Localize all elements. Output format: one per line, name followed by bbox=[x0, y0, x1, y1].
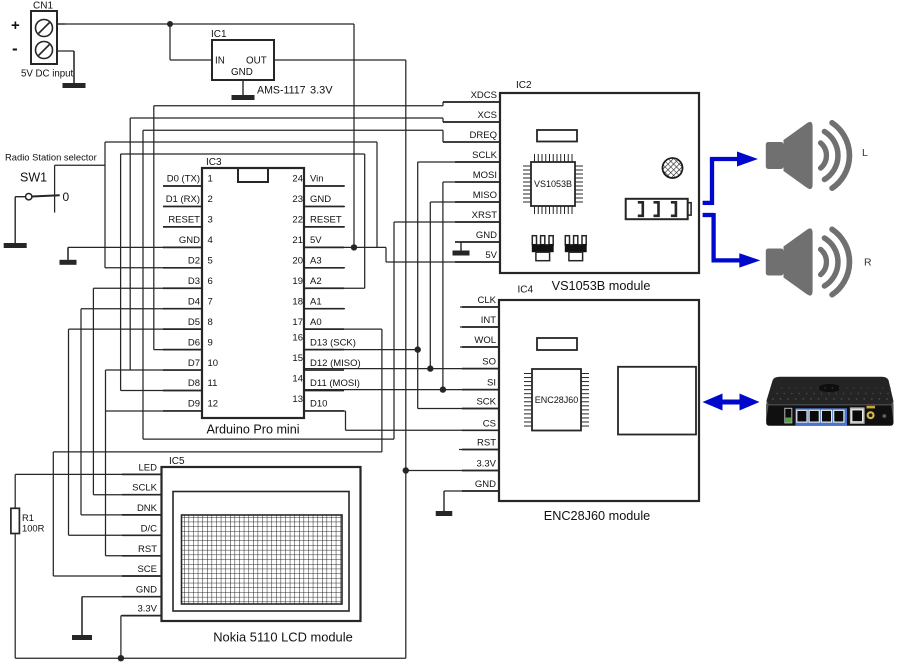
wire bus B5 D8 to A2 bbox=[121, 153, 365, 155]
svg-text:3.3V: 3.3V bbox=[137, 604, 157, 615]
svg-text:4: 4 bbox=[208, 235, 213, 246]
wire D3 to LCD SCLK bbox=[93, 287, 202, 289]
module IC4 ENC28J60 bbox=[474, 285, 699, 502]
wire D6 row bbox=[154, 349, 202, 351]
svg-text:SW1: SW1 bbox=[20, 171, 47, 185]
svg-text:D13 (SCK): D13 (SCK) bbox=[310, 337, 356, 348]
wire Arduino 5V pin to jog bbox=[304, 246, 386, 248]
wire LCD LED row to R1 bbox=[15, 473, 161, 475]
svg-text:11: 11 bbox=[208, 378, 218, 389]
ground VS1053B GND bbox=[453, 242, 470, 256]
node junction D13-SCLK-SCK bbox=[415, 346, 421, 352]
svg-text:5: 5 bbox=[208, 256, 213, 267]
svg-text:D11 (MOSI): D11 (MOSI) bbox=[310, 378, 360, 389]
wire 3.3V bottom rail bbox=[15, 657, 406, 659]
connector CN1 5V DC input bbox=[11, 1, 74, 80]
svg-text:D5: D5 bbox=[188, 317, 200, 328]
wire D8 row bbox=[121, 390, 202, 392]
wire blue audio R tap bbox=[703, 213, 714, 217]
crystal rect inside ENC28J60 module bbox=[537, 338, 577, 350]
wire Vin stub bbox=[304, 185, 345, 187]
svg-text:14: 14 bbox=[292, 374, 303, 385]
svg-text:15: 15 bbox=[292, 353, 303, 364]
wire GND4 to ground bbox=[68, 246, 202, 248]
svg-text:R1: R1 bbox=[22, 512, 34, 523]
svg-text:D7: D7 bbox=[188, 358, 200, 369]
wire RESET stub bbox=[163, 226, 202, 228]
svg-text:D1 (RX): D1 (RX) bbox=[166, 194, 200, 205]
arrow to speaker R bbox=[712, 253, 761, 267]
wire bus B3 DREQ line bbox=[143, 129, 443, 131]
svg-text:100R: 100R bbox=[22, 523, 45, 534]
svg-text:L: L bbox=[862, 147, 868, 159]
header connector J1 in VS module bbox=[532, 236, 554, 261]
svg-text:D2: D2 bbox=[188, 256, 200, 267]
svg-text:23: 23 bbox=[292, 194, 303, 205]
wire bus B2 XCS to D7 bbox=[130, 117, 443, 119]
svg-text:GND: GND bbox=[136, 585, 157, 596]
node junction LCD 3.3V on rail bbox=[118, 655, 124, 661]
svg-text:8: 8 bbox=[208, 317, 213, 328]
svg-text:-: - bbox=[12, 39, 18, 58]
svg-text:MISO: MISO bbox=[473, 190, 497, 201]
svg-text:17: 17 bbox=[292, 317, 303, 328]
wire D2 row bbox=[105, 267, 202, 269]
svg-text:Nokia 5110 LCD module: Nokia 5110 LCD module bbox=[213, 630, 353, 645]
svg-text:2: 2 bbox=[208, 194, 213, 205]
node junction MOSI bbox=[440, 386, 446, 392]
wire RESET22 stub bbox=[304, 226, 345, 228]
module IC2 VS1053B bbox=[470, 80, 699, 273]
wire bus B4 from D2 and SW1 to 5V tie bbox=[105, 141, 377, 143]
svg-text:7: 7 bbox=[208, 296, 213, 307]
svg-text:SI: SI bbox=[487, 378, 496, 389]
ground Arduino GND4 bbox=[60, 247, 77, 264]
svg-text:SCLK: SCLK bbox=[472, 150, 497, 161]
wire XCS stub bbox=[443, 121, 500, 123]
wire ENC INT stub bbox=[460, 326, 500, 328]
RJ45 jack rect bbox=[618, 367, 696, 435]
svg-text:CN1: CN1 bbox=[33, 1, 53, 12]
wire vertical tie B4 to 5V line bbox=[376, 142, 378, 247]
chip VS1053B QFP bbox=[523, 154, 583, 214]
svg-text:IN: IN bbox=[215, 56, 225, 67]
svg-text:IC4: IC4 bbox=[518, 285, 534, 296]
svg-text:D9: D9 bbox=[188, 399, 200, 410]
svg-text:D10: D10 bbox=[310, 399, 327, 410]
svg-text:D12 (MISO): D12 (MISO) bbox=[310, 358, 361, 369]
wire LCD 3.3V to bottom rail bbox=[121, 615, 162, 617]
wire LCD GND to ground bbox=[82, 596, 162, 598]
wire VS GND to ground bbox=[461, 241, 500, 243]
svg-text:A2: A2 bbox=[310, 276, 322, 287]
svg-text:3.3V: 3.3V bbox=[310, 85, 333, 97]
wire R1 top bbox=[14, 474, 16, 508]
svg-text:SCLK: SCLK bbox=[132, 483, 157, 494]
wire ENC 3.3V stub bbox=[406, 470, 500, 472]
svg-text:Radio Station selector: Radio Station selector bbox=[5, 152, 97, 163]
svg-text:Arduino Pro mini: Arduino Pro mini bbox=[206, 423, 299, 437]
arrow to speaker L bbox=[710, 152, 758, 167]
svg-text:SCK: SCK bbox=[476, 397, 496, 408]
wire A2 stub extension bbox=[304, 287, 365, 289]
wire VS SCLK vertical to D13 and ENC SCK bbox=[417, 162, 419, 409]
svg-text:19: 19 bbox=[292, 276, 303, 287]
svg-text:CS: CS bbox=[483, 418, 496, 429]
LCD inner frame bbox=[173, 492, 349, 612]
wire DREQ stub bbox=[443, 141, 500, 143]
wire CN1 minus to ground bbox=[57, 50, 74, 52]
node junction MISO bbox=[427, 365, 433, 371]
node junction on 5V top wire feeding IC1 IN bbox=[167, 21, 173, 27]
regulator IC1 AMS-1117 3.3V bbox=[211, 29, 333, 97]
wire ENC RST stub bbox=[459, 449, 500, 451]
speaker L bbox=[766, 122, 850, 189]
wire VS MISO vertical to D12/SO line bbox=[429, 202, 431, 369]
svg-text:22: 22 bbox=[292, 215, 303, 226]
wire 5V vertical x=354 down to Arduino 5V pin bbox=[353, 24, 355, 247]
IC3 Arduino Pro mini DIP-24 bbox=[166, 157, 361, 437]
svg-text:A0: A0 bbox=[310, 317, 322, 328]
svg-text:3.3V: 3.3V bbox=[476, 459, 496, 470]
wire bus B1 XDCS to D6 bbox=[154, 105, 443, 107]
wire under-LCD-top y=452 to SCE bbox=[53, 451, 382, 453]
svg-text:SO: SO bbox=[482, 357, 496, 368]
ground CN1 bbox=[63, 51, 86, 88]
svg-text:XDCS: XDCS bbox=[471, 90, 497, 101]
headphone jack bbox=[626, 199, 691, 219]
node junction at Arduino 5V pin 21 bbox=[351, 244, 357, 250]
svg-text:12: 12 bbox=[208, 399, 219, 410]
svg-text:GND: GND bbox=[476, 230, 497, 241]
router ethernet device bbox=[766, 377, 893, 426]
wire SW1 output to bus bbox=[55, 164, 105, 166]
ground IC1 bbox=[232, 80, 255, 100]
node junction ENC3V3-rail bbox=[403, 467, 409, 473]
svg-text:DREQ: DREQ bbox=[470, 130, 497, 141]
chip ENC28J60 SOIC bbox=[524, 369, 589, 431]
svg-text:LED: LED bbox=[139, 462, 158, 473]
svg-text:+: + bbox=[11, 17, 20, 34]
svg-text:RESET: RESET bbox=[310, 215, 342, 226]
wire blue audio L vertical bbox=[710, 159, 714, 205]
speaker R bbox=[766, 228, 850, 295]
ground LCD GND bbox=[72, 597, 92, 640]
wire GND23 stub bbox=[304, 205, 345, 207]
svg-text:D6: D6 bbox=[188, 337, 200, 348]
wire SCE stub bbox=[53, 575, 161, 577]
svg-text:21: 21 bbox=[292, 235, 303, 246]
module IC5 Nokia 5110 LCD bbox=[132, 456, 360, 621]
wire blue audio R vertical bbox=[711, 213, 715, 260]
wire VS XRST to under-Arduino route bbox=[394, 221, 500, 223]
wire CN1 plus stub bbox=[57, 23, 65, 25]
header connector J2 in VS module bbox=[565, 236, 587, 261]
svg-text:18: 18 bbox=[292, 296, 303, 307]
svg-text:A1: A1 bbox=[310, 296, 322, 307]
svg-text:GND: GND bbox=[475, 479, 496, 490]
svg-text:GND: GND bbox=[310, 194, 331, 205]
wire junction to IC1 IN bbox=[169, 24, 171, 60]
svg-text:SCE: SCE bbox=[137, 564, 157, 575]
wire D11 MOSI to ENC SI bbox=[304, 389, 500, 391]
svg-text:ENC28J60 module: ENC28J60 module bbox=[544, 509, 651, 523]
svg-text:RST: RST bbox=[477, 438, 496, 449]
svg-text:0: 0 bbox=[63, 190, 70, 204]
svg-text:IC2: IC2 bbox=[516, 80, 532, 91]
wire XDCS stub bbox=[443, 101, 500, 103]
svg-text:10: 10 bbox=[208, 358, 219, 369]
svg-text:6: 6 bbox=[208, 276, 213, 287]
wire under-Arduino y=439 XRST link bbox=[143, 438, 394, 440]
wire D13 SCK stub bbox=[304, 349, 418, 351]
wire 5V from CN1 plus terminal to x=354 bbox=[57, 23, 354, 25]
double arrow to router bbox=[703, 394, 760, 411]
wire D4 to LCD DNK bbox=[81, 308, 202, 310]
wire A1 stub bbox=[304, 308, 345, 310]
svg-text:RESET: RESET bbox=[168, 215, 200, 226]
wire A3 stub bbox=[304, 267, 345, 269]
svg-text:A3: A3 bbox=[310, 256, 322, 267]
wire R1 bottom to 3.3V rail bbox=[14, 534, 16, 659]
wire D0 stub bbox=[163, 185, 202, 187]
svg-text:GND: GND bbox=[179, 235, 200, 246]
svg-text:VS1053B module: VS1053B module bbox=[552, 279, 651, 293]
wire D5 to LCD D/C bbox=[69, 328, 203, 330]
svg-text:5V: 5V bbox=[310, 235, 322, 246]
svg-text:ENC28J60: ENC28J60 bbox=[535, 395, 579, 405]
switch SW1 radio station selector bbox=[5, 152, 97, 205]
svg-text:VS1053B: VS1053B bbox=[534, 179, 572, 189]
wire IC1 OUT 3.3V to right rail bbox=[274, 59, 406, 61]
svg-text:IC5: IC5 bbox=[169, 456, 185, 467]
svg-text:CLK: CLK bbox=[478, 295, 497, 306]
microphone circle bbox=[663, 158, 683, 178]
wire pin stub overlays bbox=[443, 101, 500, 103]
wire 5V to VS1053B 5V pin bbox=[386, 261, 500, 263]
wire ENC CLK stub bbox=[460, 306, 500, 308]
svg-text:13: 13 bbox=[292, 394, 303, 405]
wire blue audio L tap bbox=[703, 201, 712, 205]
wire D12 MISO to ENC SO bbox=[304, 368, 500, 370]
svg-text:5V: 5V bbox=[485, 250, 497, 261]
svg-text:3: 3 bbox=[208, 215, 213, 226]
svg-text:IC1: IC1 bbox=[211, 29, 227, 40]
svg-text:20: 20 bbox=[292, 256, 303, 267]
ground ENC28J60 GND bbox=[436, 491, 453, 516]
svg-text:D3: D3 bbox=[188, 276, 200, 287]
svg-text:OUT: OUT bbox=[246, 56, 267, 67]
svg-text:RST: RST bbox=[138, 544, 157, 555]
wire D7 to LCD RST bbox=[106, 369, 203, 371]
svg-text:GND: GND bbox=[231, 67, 253, 78]
svg-text:WOL: WOL bbox=[474, 335, 496, 346]
svg-text:XRST: XRST bbox=[472, 210, 498, 221]
svg-text:D0 (TX): D0 (TX) bbox=[167, 174, 200, 185]
svg-text:IC3: IC3 bbox=[206, 157, 222, 168]
svg-text:R: R bbox=[864, 257, 872, 269]
svg-text:DNK: DNK bbox=[137, 503, 158, 514]
svg-text:9: 9 bbox=[208, 337, 213, 348]
ground SW1 bbox=[4, 197, 27, 248]
svg-text:INT: INT bbox=[481, 315, 497, 326]
svg-text:XCS: XCS bbox=[477, 110, 497, 121]
resistor R1 100R bbox=[11, 508, 45, 533]
svg-text:5V DC input: 5V DC input bbox=[21, 69, 74, 80]
svg-text:D4: D4 bbox=[188, 296, 200, 307]
crystal rect inside VS1053B bbox=[537, 130, 577, 142]
svg-text:MOSI: MOSI bbox=[473, 170, 497, 181]
wire 3.3V rail vertical x=405.8 bbox=[405, 60, 407, 658]
svg-text:AMS-1117: AMS-1117 bbox=[257, 85, 306, 97]
wire VS MOSI vertical to D11/SI line bbox=[442, 182, 444, 390]
svg-text:1: 1 bbox=[208, 174, 213, 185]
wire D1 stub bbox=[163, 205, 202, 207]
svg-text:Vin: Vin bbox=[310, 174, 324, 185]
wire D9 row extension bbox=[106, 410, 203, 412]
svg-text:24: 24 bbox=[292, 174, 303, 185]
svg-text:16: 16 bbox=[292, 333, 303, 344]
wire ENC GND to ground bbox=[444, 490, 500, 492]
wire D10 to ENC CS bbox=[304, 410, 346, 412]
LCD pixel grid bbox=[182, 515, 343, 604]
wire A0 to SCE route vertical bbox=[304, 328, 382, 330]
svg-text:D/C: D/C bbox=[141, 523, 158, 534]
wire ENC SCK stub bbox=[418, 408, 500, 410]
wire ENC WOL stub bbox=[460, 346, 500, 348]
svg-text:D8: D8 bbox=[188, 378, 200, 389]
